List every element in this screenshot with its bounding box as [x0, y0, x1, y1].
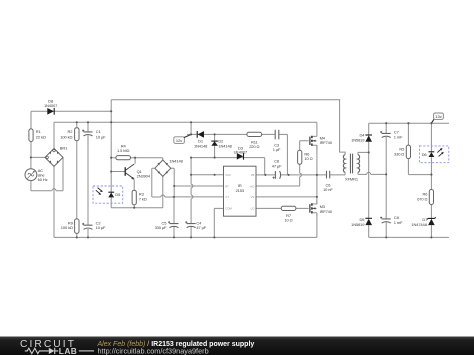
resistor R8 670: [417, 190, 433, 205]
wire transformer secondary leads: [358, 152, 386, 174]
wire diode bridge right path: [171, 168, 174, 197]
transistor M3 IRF740: [310, 200, 333, 216]
wire 12v rail: [54, 122, 317, 134]
svg-text:1 mF: 1 mF: [394, 220, 403, 225]
svg-text:330 µF: 330 µF: [155, 225, 167, 230]
transistor M4 IRF740: [310, 133, 333, 150]
svg-text:BR1: BR1: [60, 146, 68, 151]
transformer XFMR1: [343, 154, 359, 182]
svg-text:UF4007: UF4007: [234, 149, 248, 154]
optocoupler photodiode D5: [93, 186, 123, 203]
resistor R6: [298, 150, 313, 164]
resistor R1: [29, 129, 46, 142]
svg-text:2N3904: 2N3904: [137, 174, 151, 179]
wire optocoupler LED column: [430, 123, 432, 237]
svg-text:RT: RT: [225, 184, 229, 188]
diode D3: [234, 145, 248, 159]
svg-text:10 Ω: 10 Ω: [284, 218, 292, 223]
wire R5 column: [408, 123, 431, 174]
wire C5 column: [173, 197, 175, 238]
wire secondary top rail: [369, 122, 449, 124]
wire C8 column: [385, 174, 387, 237]
svg-text:10 µF: 10 µF: [96, 225, 106, 230]
node 13v badge: [432, 113, 444, 123]
diode bridge 1N4148: [155, 158, 184, 176]
svg-text:1.5 MΩ: 1.5 MΩ: [117, 148, 129, 153]
resistor R7: [281, 206, 296, 222]
wire VB VS long line with C6 to transformer: [256, 172, 345, 175]
svg-text:XFMR1: XFMR1: [345, 177, 359, 182]
wire half-bridge vertical: [316, 122, 318, 237]
svg-text:2153: 2153: [236, 188, 245, 193]
svg-text:VCC: VCC: [225, 173, 231, 177]
resistor R2: [60, 128, 79, 141]
wire C7 column: [385, 123, 387, 174]
svg-text:1N4148: 1N4148: [218, 143, 232, 148]
svg-text:10 µF: 10 µF: [96, 134, 106, 139]
svg-text:VB: VB: [251, 173, 255, 177]
svg-text:1N4148: 1N4148: [194, 143, 208, 148]
capacitor C2: [82, 220, 106, 230]
svg-text:670 Ω: 670 Ω: [417, 196, 427, 201]
footer brand bar: [0, 337, 474, 355]
wire VCC D3 line: [191, 158, 265, 175]
svg-text:LAB: LAB: [59, 346, 77, 355]
capacitor C3: [273, 130, 281, 152]
wire RT pin: [174, 185, 223, 187]
wire CT pin: [174, 196, 224, 198]
svg-text:IRF740: IRF740: [320, 140, 333, 145]
wire COM pin to ground: [214, 208, 223, 237]
wire top rail to transformer primary: [111, 100, 345, 155]
diode D2: [211, 139, 232, 149]
capacitor C4: [185, 220, 206, 230]
wire VS pin: [256, 196, 317, 198]
svg-text:10 Ω: 10 Ω: [304, 156, 312, 161]
svg-text:330 Ω: 330 Ω: [394, 151, 404, 156]
wire bridge BR1 risers: [53, 122, 55, 237]
wire D4 D5 column: [368, 123, 370, 237]
optocoupler LED D6: [419, 146, 448, 163]
capacitor C7: [380, 130, 403, 140]
svg-text:1N5819: 1N5819: [351, 222, 365, 227]
wire Q1 collector emitter leads: [133, 158, 136, 208]
diode D8: [44, 99, 58, 115]
capacitor C8 47uF: [272, 159, 282, 179]
svg-text:IRF740: IRF740: [320, 209, 333, 214]
svg-text:1N5819: 1N5819: [351, 137, 365, 142]
svg-text:VS: VS: [251, 195, 255, 199]
wire R4 to diode bridge top: [135, 158, 163, 160]
capacitor C5: [155, 220, 179, 230]
transistor Q1: [125, 164, 151, 180]
svg-text:47 µF: 47 µF: [196, 225, 206, 230]
capacitor C6: [323, 171, 333, 192]
IC U1 IR2153 gate driver: [224, 166, 257, 216]
svg-text:12v: 12v: [176, 138, 182, 143]
svg-text:1N4148: 1N4148: [169, 158, 183, 163]
wire D8 startup line: [31, 111, 111, 157]
wire R2 R9 column: [76, 122, 78, 237]
capacitor C1: [82, 129, 106, 139]
svg-text:22 kΩ: 22 kΩ: [36, 134, 46, 139]
wire D1 R11 C3 line: [187, 134, 287, 175]
wire diode bridge bottom: [162, 176, 164, 207]
wire C1 C2 column: [87, 122, 89, 237]
svg-text:1N4744A: 1N4744A: [411, 222, 427, 227]
wire secondary bottom rail: [369, 236, 449, 238]
wire diode bridge left path: [152, 168, 174, 197]
bridge rectifier BR1: [45, 146, 68, 167]
svg-text:10 nF: 10 nF: [323, 187, 333, 192]
svg-text:COM: COM: [225, 207, 232, 211]
diode D4: [351, 133, 372, 143]
diode D1: [194, 131, 208, 148]
svg-text:7 kΩ: 7 kΩ: [139, 196, 147, 201]
wire primary ground rail: [54, 236, 317, 238]
wire VCC bypass vertical: [191, 158, 193, 238]
svg-text:http://circuitlab.com/cf39naya: http://circuitlab.com/cf39naya9ferb: [98, 346, 209, 355]
wire startup vertical with photodiode: [111, 100, 163, 208]
wire VCC pin: [191, 174, 223, 176]
wire D2 branch: [214, 134, 216, 157]
resistor R5: [394, 145, 410, 159]
wire HO pin to R6 gate: [256, 141, 309, 186]
svg-text:100 kΩ: 100 kΩ: [60, 134, 72, 139]
svg-text:13v: 13v: [435, 114, 441, 119]
wire LO pin to R7 gate: [256, 207, 309, 209]
resistor R4: [116, 143, 131, 159]
svg-text:1 µF: 1 µF: [273, 147, 281, 152]
resistor R9: [61, 219, 79, 234]
svg-text:60 Hz: 60 Hz: [38, 177, 48, 182]
AC source V1: [25, 168, 48, 182]
node 12v badge: [174, 135, 191, 144]
wire AC source leads: [31, 157, 63, 190]
svg-text:100 kΩ: 100 kΩ: [61, 225, 73, 230]
capacitor C8 1mF: [380, 215, 403, 225]
svg-text:CT: CT: [225, 195, 229, 199]
resistor R3: [132, 190, 147, 205]
svg-text:1N4007: 1N4007: [44, 103, 58, 108]
zener diode D7: [411, 217, 435, 227]
svg-text:47 µF: 47 µF: [272, 163, 282, 168]
resistor R11: [247, 132, 262, 149]
svg-text:1 mF: 1 mF: [394, 134, 403, 139]
svg-text:220 Ω: 220 Ω: [249, 144, 259, 149]
diode D5 1N5819: [351, 217, 372, 227]
